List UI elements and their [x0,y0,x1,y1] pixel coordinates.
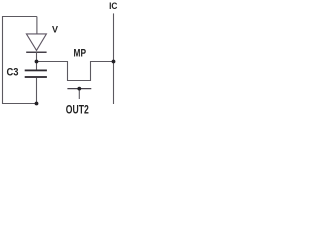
svg-text:V: V [52,24,58,34]
svg-text:OUT2: OUT2 [66,102,89,116]
svg-text:IC: IC [109,1,117,12]
svg-text:MP: MP [74,48,87,60]
svg-text:C3: C3 [7,67,19,79]
